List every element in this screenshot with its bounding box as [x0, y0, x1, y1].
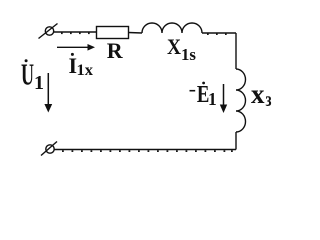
wire top-left — [54, 31, 97, 33]
label U1 — [21, 57, 44, 95]
terminal top-left — [39, 24, 58, 39]
inductor x3 (right branch) — [236, 69, 246, 132]
svg-text:1: 1 — [34, 72, 44, 94]
svg-text:з: з — [266, 89, 272, 111]
wire texture dots bottom — [62, 150, 233, 152]
wire right vertical bottom — [235, 132, 237, 150]
inductor X1s — [142, 23, 202, 33]
svg-text:R: R — [107, 38, 124, 63]
svg-text:1s: 1s — [181, 45, 196, 64]
arrow U1 — [44, 73, 52, 113]
svg-text:X: X — [167, 34, 181, 59]
svg-text:U: U — [21, 57, 34, 92]
wire texture dots top-left — [61, 32, 90, 34]
wire coil to corner — [202, 32, 236, 34]
label -E1 — [190, 82, 217, 109]
terminal bottom-left — [41, 142, 57, 156]
svg-text:x: x — [251, 78, 265, 109]
label x3 — [251, 78, 272, 111]
wire resistor to coil — [129, 32, 143, 35]
label X1s — [167, 34, 196, 64]
wire texture dots top-right — [207, 33, 227, 35]
resistor R — [97, 27, 129, 39]
current arrow I1x — [57, 44, 95, 51]
wire right vertical top — [235, 33, 237, 69]
svg-text:1x: 1x — [77, 62, 94, 79]
arrow E1 — [220, 84, 227, 113]
wire bottom — [55, 149, 237, 151]
label I1x — [69, 53, 94, 79]
svg-text:1: 1 — [208, 89, 217, 109]
